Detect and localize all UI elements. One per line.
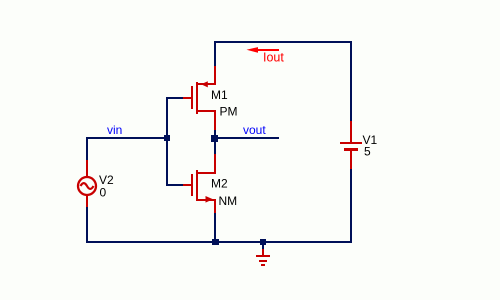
svg-text:0: 0 [100,186,107,200]
voltage source V2 (AC source) [78,160,96,207]
ground [256,249,270,266]
wire left rail lower (V2 to bottom rail) [86,207,88,243]
node vout junction [211,135,218,142]
svg-text:vin: vin [107,123,122,137]
wire bottom rail [86,241,352,243]
voltage source V1 (battery) [340,121,362,169]
svg-text:M1: M1 [211,88,228,102]
M1 source arrow [201,81,208,87]
svg-text:Iout: Iout [263,51,284,65]
transistor M2 (NMOS) [183,154,216,213]
M2 source arrow [206,196,214,203]
transistor M1 (PMOS) [183,66,216,130]
wire vout node to M2 drain [214,142,216,154]
node M2 source junction [212,239,219,245]
wire M1 drain to vout node [214,130,216,137]
wire right rail lower (V1 to bottom rail) [350,169,352,243]
wire vin horizontal [86,137,168,139]
wire ground stem navy [262,244,264,249]
wire M2 gate stub [166,184,183,186]
wire vout horizontal [214,137,279,139]
wire M2 source to bottom rail [214,213,216,241]
svg-text:5: 5 [364,145,371,159]
wire M1 drain riser (top rail to M1) [214,41,216,66]
wire M1 gate stub [166,97,183,99]
wire left rail upper (vin to V2) [86,137,88,160]
node vin junction [164,135,170,141]
wire right rail upper (top rail to V1) [350,41,352,121]
node ground junction [260,239,266,245]
svg-text:NM: NM [219,194,238,208]
svg-text:vout: vout [243,123,266,137]
wire top rail [214,41,352,43]
svg-text:M2: M2 [211,177,228,191]
svg-text:PM: PM [220,105,238,119]
wire gate column [166,97,168,186]
current arrow Iout [247,47,280,53]
